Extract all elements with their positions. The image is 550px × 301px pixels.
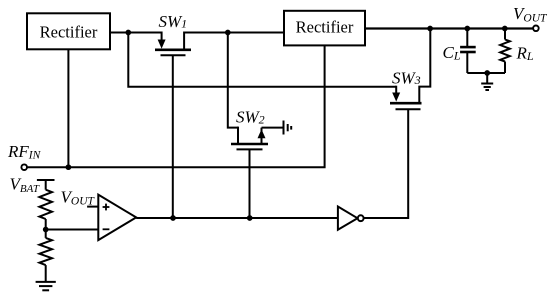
- node: RFin/REC1 junction: [66, 164, 72, 170]
- wire: SW2 source to ground: [262, 127, 284, 129]
- wire: SW2 gate lead down to comparator output: [249, 149, 251, 218]
- wire: inverter output up to SW3 gate: [364, 109, 409, 218]
- op-amp comparator U1: [87, 195, 136, 240]
- transistor SW2: [231, 127, 268, 150]
- wire: RFin line across and up to REC2 input: [27, 45, 325, 167]
- battery VBAT supply bar: [37, 180, 55, 190]
- wire: top rail down to SW2 drain: [228, 33, 238, 128]
- svg-text:SW1: SW1: [159, 12, 188, 31]
- resistor RL: [500, 29, 510, 74]
- wire: bypass from top rail down and across to SW3 source: [128, 33, 396, 87]
- svg-text:Rectifier: Rectifier: [40, 22, 98, 41]
- node: load ground junction: [484, 70, 490, 76]
- terminal RFin (open circle): [21, 164, 27, 170]
- svg-text:VOUT: VOUT: [61, 187, 96, 207]
- wire: CL bottom to RL bottom: [467, 72, 505, 74]
- node: output rail / RL: [502, 26, 508, 32]
- svg-text:VBAT: VBAT: [10, 175, 40, 195]
- ground (SW2 source, horizontal): [284, 121, 292, 135]
- svg-text:RL: RL: [516, 44, 534, 64]
- inverter INV1: [338, 207, 364, 230]
- svg-text:Rectifier: Rectifier: [296, 17, 354, 36]
- node: comparator out / SW1 gate: [170, 215, 176, 221]
- svg-text:RFIN: RFIN: [7, 142, 42, 161]
- svg-text:SW3: SW3: [392, 68, 421, 87]
- resistor R2 (divider bottom): [39, 230, 52, 282]
- ground (divider): [36, 282, 56, 290]
- wire: REC1 input lead down to RFin line: [67, 49, 69, 167]
- wire: REC2 output rail to VOUT terminal: [365, 27, 533, 29]
- wire: REC1 output to SW1 left (top rail): [110, 32, 162, 34]
- ground (load): [481, 73, 493, 90]
- wire: comparator output line: [136, 217, 338, 219]
- rectifier block REC1: [27, 13, 110, 49]
- node: output rail / SW3 drain: [427, 26, 433, 32]
- node: rail/SW2 junction: [225, 30, 231, 36]
- node: output rail / CL: [464, 26, 470, 32]
- svg-text:SW2: SW2: [236, 108, 265, 127]
- transistor SW3: [390, 29, 430, 110]
- svg-text:CL: CL: [443, 43, 461, 63]
- wire: divider tap to comparator inverting input: [46, 229, 99, 231]
- wire: SW1 gate lead down to comparator output: [172, 55, 174, 218]
- resistor R1 (divider top): [39, 190, 52, 230]
- node: comparator out / SW2 gate: [247, 215, 253, 221]
- transistor SW1: [155, 32, 191, 56]
- svg-text:VOUT: VOUT: [513, 4, 548, 24]
- wire: SW1 right to REC2 input (top rail): [184, 32, 284, 34]
- terminal VOUT (open circle): [533, 26, 539, 32]
- rectifier block REC2: [284, 11, 365, 46]
- node: divider tap: [43, 227, 49, 233]
- capacitor CL: [460, 29, 476, 74]
- node: rail/bypass junction: [125, 30, 131, 36]
